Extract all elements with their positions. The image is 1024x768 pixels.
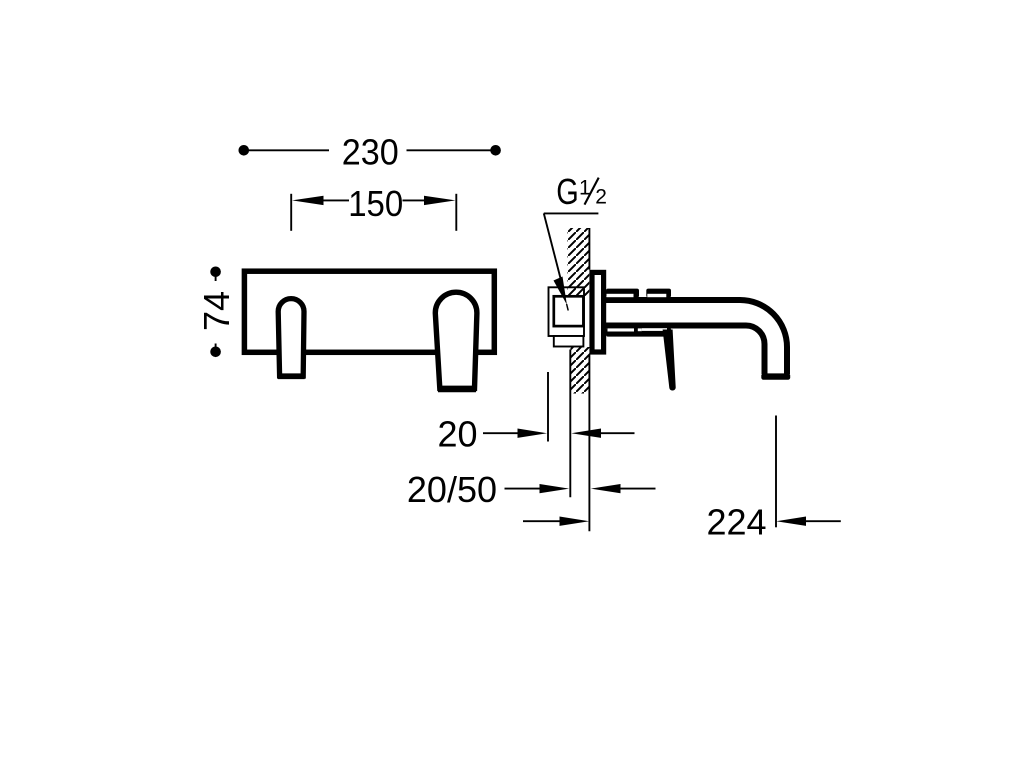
spout outlet cap	[761, 373, 790, 379]
top collar nut 2	[646, 289, 671, 298]
top collar nut 2 slit	[647, 294, 666, 297]
wall hatch upper	[560, 220, 596, 304]
dim 20 right line	[599, 432, 635, 434]
dim 20/50 right arrow	[591, 484, 621, 493]
G1/2 leader tip line	[567, 304, 569, 311]
dim 150 right arrow	[424, 196, 456, 205]
dim 74 top dot	[210, 267, 221, 278]
valve cartridge	[554, 296, 584, 326]
dim 20/50 right line	[618, 488, 656, 490]
handle lever side view	[663, 330, 676, 391]
dim 74 top stub	[215, 272, 217, 281]
wall face line lower	[588, 354, 590, 531]
valve front face extension line	[547, 372, 549, 442]
spout tube bottom edge	[605, 326, 765, 375]
dim 74 bottom stub	[215, 344, 217, 353]
G1/2 leader underline	[544, 212, 599, 214]
svg-text:150: 150	[348, 183, 403, 224]
svg-text:20/50: 20/50	[407, 469, 497, 510]
svg-text:20: 20	[437, 413, 477, 454]
dim 20/50 left arrow	[540, 484, 570, 493]
dim 20/50 left line	[505, 488, 542, 490]
front view spout outlet	[278, 299, 304, 376]
front view spout bottom edge	[278, 373, 305, 379]
front view handle	[435, 292, 477, 388]
dim 224 left line	[523, 520, 561, 522]
dim 150 left arrow	[292, 196, 324, 205]
dim 230 line left segment	[246, 149, 329, 151]
wall plaster line lower	[569, 350, 571, 498]
top collar nut 1	[606, 289, 639, 298]
svg-text:2: 2	[595, 186, 607, 209]
bottom collar notch	[638, 328, 642, 331]
svg-text:230: 230	[342, 132, 399, 173]
dim 224 right line	[804, 520, 841, 522]
svg-text:74: 74	[196, 291, 237, 331]
dim 20 right arrow	[571, 429, 601, 438]
escutcheon plate	[592, 272, 604, 352]
G1/2 leader diagonal	[544, 213, 561, 281]
spout tube top edge	[605, 300, 787, 374]
valve body outer box	[549, 287, 585, 336]
dim 20 left line	[483, 432, 519, 434]
svg-text:G: G	[556, 171, 579, 212]
front view handle bottom edge	[438, 386, 476, 392]
dim 230 left dot	[239, 145, 250, 156]
dim 230 right dot	[490, 145, 501, 156]
dim 150 right tick	[455, 194, 457, 231]
top collar nut 1 slit	[607, 294, 634, 297]
G1/2 label fraction slash	[585, 178, 599, 205]
front view wall plate	[244, 271, 494, 352]
dim 20 left arrow	[518, 429, 548, 438]
dim 150 left tick	[290, 194, 292, 231]
svg-text:224: 224	[706, 502, 766, 543]
wall face line upper	[588, 228, 590, 270]
dim 74 bottom dot	[210, 347, 221, 358]
dim 230 line right segment	[407, 149, 494, 151]
bottom collar	[606, 328, 671, 337]
G1/2 leader arrowhead	[554, 277, 567, 305]
dim 150 left line	[322, 199, 349, 201]
spout end extension line	[775, 416, 777, 528]
bottom collar slit 2	[642, 328, 667, 331]
dim 224 right arrow	[776, 517, 806, 526]
bottom collar slit 1	[608, 328, 635, 331]
valve body lower fitting	[554, 336, 584, 347]
dim 150 right line	[403, 199, 426, 201]
dim 224 left arrow	[560, 517, 590, 526]
wall hatch lower	[570, 347, 589, 394]
